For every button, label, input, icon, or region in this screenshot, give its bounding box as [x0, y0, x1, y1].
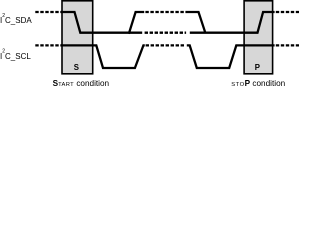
wire: SDA dashed low (middle): [145, 32, 187, 34]
wire: SDA solid low and rising edge (through STOP box): [190, 12, 275, 33]
wire: SDA rising edge after START: [129, 12, 144, 34]
wire: SDA dashed high (middle): [145, 11, 186, 13]
svg-text:S: S: [74, 63, 79, 72]
svg-text:P: P: [255, 63, 260, 72]
wire: SCL dashed high (middle): [146, 44, 186, 46]
wire: SCL solid fall, low, rise, high through STOP box: [187, 45, 275, 68]
wire: SDA dashed high (right): [276, 11, 299, 13]
wire: SDA solid high, falling edge, low (through START box): [61, 12, 142, 33]
wire: SDA solid high and falling edge (before STOP): [186, 12, 205, 33]
START condition shaded box: [62, 1, 93, 74]
wire: SCL solid high through START box, fall, low, rise: [61, 45, 145, 68]
wire: SCL dashed high (right): [276, 44, 299, 46]
wire: SDA dashed high (left): [35, 11, 61, 13]
wire: SCL dashed high (left): [35, 44, 61, 46]
STOP condition shaded box: [244, 1, 273, 74]
